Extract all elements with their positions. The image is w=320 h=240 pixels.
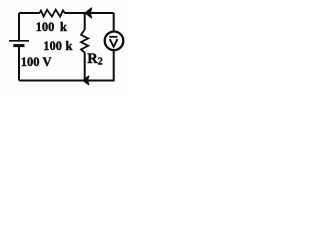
wire middle branch from R2 down to bottom wire <box>84 52 86 80</box>
wire middle branch from top node down to R2 <box>84 13 86 30</box>
resistor R1 (100 k, horizontal zigzag) <box>40 10 65 17</box>
battery V1 short plate (-) <box>13 44 24 47</box>
svg-text:100k: 100k <box>36 20 67 34</box>
voltmeter V glyph <box>110 39 118 47</box>
node B: junction of middle branch with bottom wire <box>83 79 86 82</box>
node A: junction of middle branch with top wire <box>83 12 86 15</box>
battery V1 long plate (+) <box>9 40 29 42</box>
voltmeter overbar <box>109 36 117 38</box>
wire right side below voltmeter <box>113 51 115 81</box>
wire right side down to voltmeter <box>113 13 115 31</box>
arrow current I (top, pointing left) <box>86 8 92 18</box>
resistor R2 (vertical zigzag) <box>81 30 88 53</box>
wire top-left: from top-left corner to resistor R1 <box>19 12 40 14</box>
wire left side from battery down to bottom-left corner <box>18 47 20 81</box>
wire left side from corner down to battery <box>18 13 20 40</box>
svg-text:100k: 100k <box>43 39 72 53</box>
voltmeter U1 (circle) <box>105 32 124 51</box>
background <box>0 0 130 96</box>
wire bottom <box>19 80 115 82</box>
wire top-right: from R1 to top-right corner <box>65 12 114 14</box>
svg-text:100V: 100V <box>21 55 52 69</box>
arrow current I2 (bottom, pointing left) <box>83 76 89 84</box>
